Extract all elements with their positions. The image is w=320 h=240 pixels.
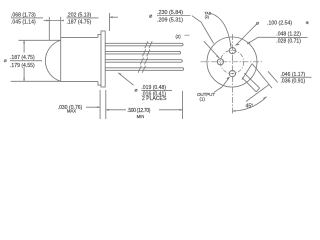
svg-text:⌀: ⌀	[135, 87, 138, 93]
lead circle bottom	[229, 71, 235, 77]
svg-text:.209 (5.31): .209 (5.31)	[157, 17, 183, 23]
lead 4	[105, 68, 183, 71]
dim .030 ext line right	[105, 90, 107, 119]
dim .030 left arrow	[86, 106, 100, 108]
bolt circle dashed	[220, 50, 243, 73]
svg-text:45°: 45°	[246, 103, 254, 109]
leader dia .100	[236, 24, 257, 45]
dim .030 ext line left	[99, 90, 101, 119]
svg-text:MIN: MIN	[137, 114, 145, 119]
svg-text:(1): (1)	[200, 97, 206, 102]
svg-text:.048 (1.22): .048 (1.22)	[276, 32, 301, 38]
tab	[242, 73, 260, 92]
svg-text:(2): (2)	[205, 15, 209, 19]
dim .202 right ext line	[109, 13, 111, 31]
dome lens arc	[45, 40, 60, 81]
dome dia dim line bottom stub	[23, 67, 25, 81]
cap base step bottom	[98, 82, 101, 86]
lead 1	[105, 43, 183, 46]
svg-text:.202 (5.13): .202 (5.13)	[67, 12, 92, 18]
leader .046 to text	[268, 71, 278, 82]
end view body circle	[207, 37, 257, 87]
leader lead dia .019	[118, 73, 133, 85]
45 deg arc	[232, 97, 266, 111]
dim .500 dim line	[106, 109, 183, 111]
svg-text:MAX: MAX	[67, 109, 76, 114]
leader output to bottom lead	[214, 77, 230, 92]
svg-text:⊕: ⊕	[306, 20, 309, 25]
lead 3	[105, 60, 182, 63]
dome bottom ext line	[11, 80, 61, 82]
break marks lead 1	[145, 41, 152, 48]
cap bottom edge	[61, 81, 98, 83]
lead 2	[105, 51, 180, 54]
dim .068 dim line + arrows	[44, 20, 61, 22]
dim .202 right arrow	[110, 16, 119, 18]
svg-text:.179 (4.55): .179 (4.55)	[10, 63, 35, 69]
svg-text:⌀: ⌀	[149, 13, 152, 19]
lead circle top	[229, 48, 235, 54]
svg-text:.028 (0.71): .028 (0.71)	[276, 39, 301, 45]
svg-text:.068 (1.73): .068 (1.73)	[11, 12, 36, 18]
leader TAB(2) to top lead	[211, 14, 231, 47]
leader into left lead circle	[204, 41, 220, 58]
svg-text:.187 (4.75): .187 (4.75)	[10, 55, 35, 61]
tab cross line	[242, 64, 252, 80]
dim .068 left ext line	[48, 17, 50, 40]
cap top edge	[61, 36, 98, 38]
dome top ext line	[18, 39, 60, 41]
svg-text:⌀: ⌀	[4, 58, 7, 64]
cap base step top	[98, 34, 101, 37]
svg-text:⌀: ⌀	[256, 20, 259, 26]
svg-text:.230 (5.84): .230 (5.84)	[157, 10, 183, 16]
lead circle left	[217, 59, 223, 65]
leader 45deg to tab axis	[246, 84, 269, 101]
leader .048	[247, 37, 276, 44]
dome dia dim line top stub	[23, 40, 25, 52]
break marks lead 4	[138, 66, 145, 73]
flange	[101, 31, 105, 87]
svg-text:(2): (2)	[176, 34, 182, 39]
tab axis extension	[252, 64, 272, 89]
svg-text:2 PLACES: 2 PLACES	[142, 96, 167, 102]
dim .500 right ext line	[182, 91, 184, 119]
svg-text:.045 (1.14): .045 (1.14)	[11, 20, 36, 26]
vertical centerline	[231, 34, 233, 114]
svg-text:.036 (0.91): .036 (0.91)	[281, 78, 306, 84]
break marks lead 2	[143, 49, 150, 56]
horizontal centerline	[201, 61, 264, 63]
leader dia .230 to end view circle	[192, 16, 214, 44]
cap front face + ext line up	[60, 17, 62, 82]
svg-text:.187 (4.75): .187 (4.75)	[67, 20, 92, 26]
break marks lead 3	[140, 58, 147, 65]
svg-text:.100 (2.54): .100 (2.54)	[267, 20, 292, 26]
